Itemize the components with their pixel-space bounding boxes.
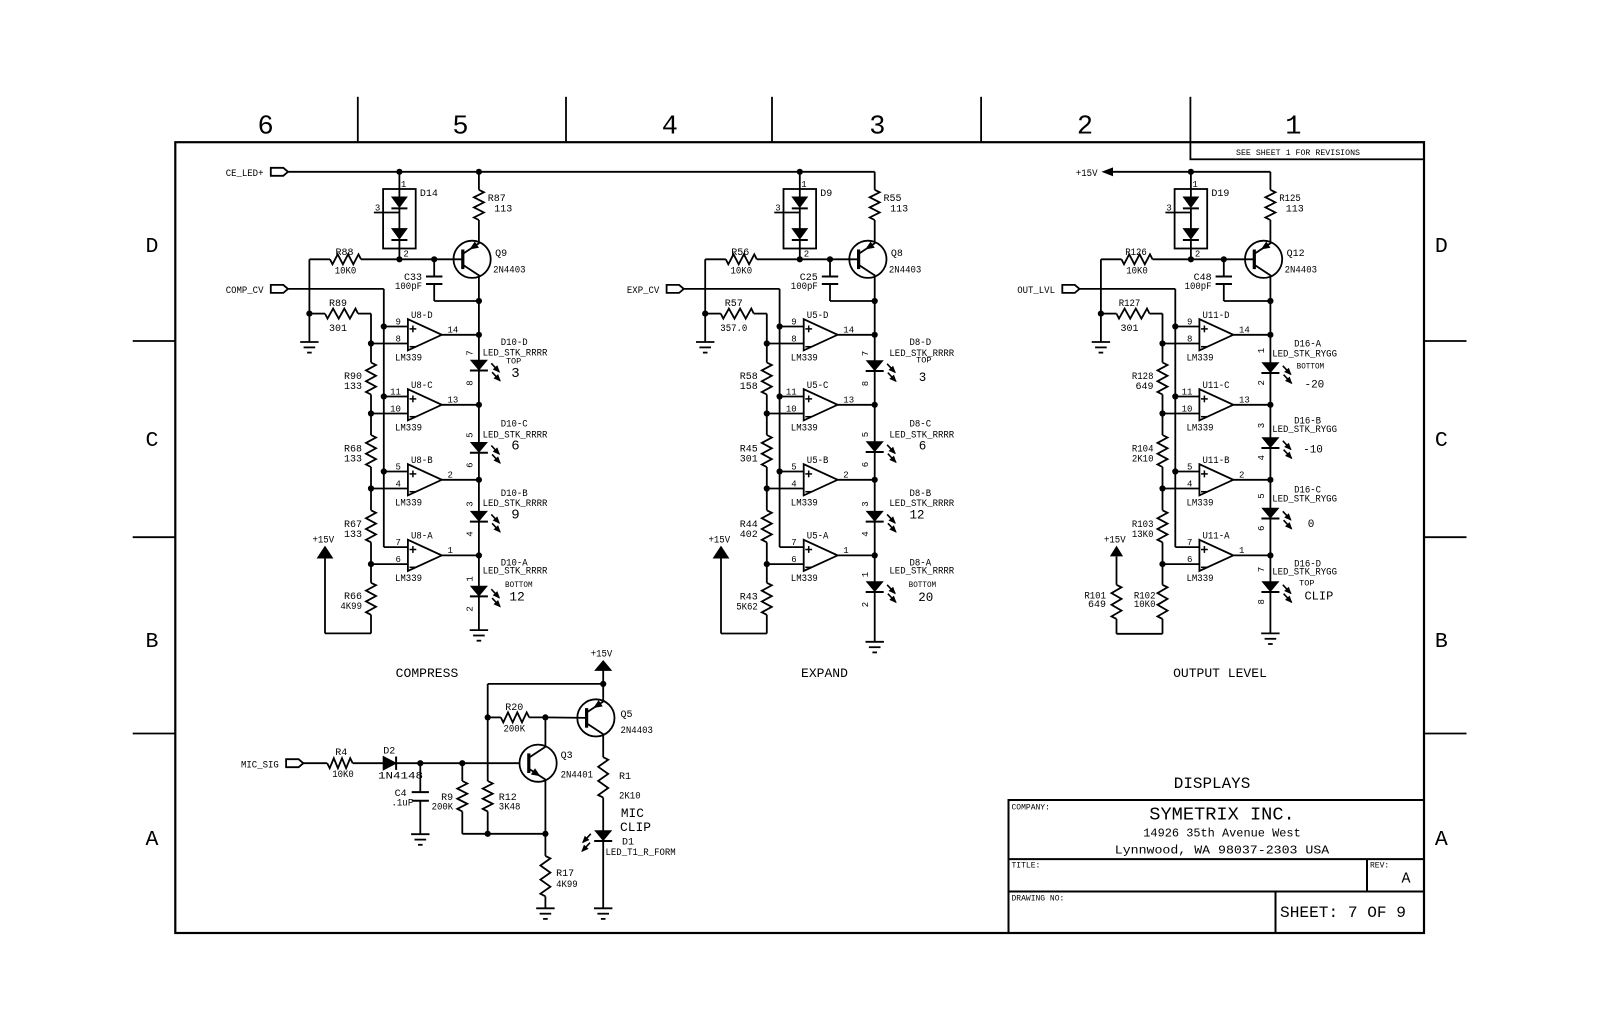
ground (bias) <box>1092 342 1110 353</box>
resistor R17 4K99 <box>540 834 577 909</box>
svg-text:11: 11 <box>1182 388 1193 398</box>
resistor R55 113 <box>870 172 908 243</box>
wire input to comparator + inputs <box>684 289 783 547</box>
svg-text:113: 113 <box>890 205 908 216</box>
node CE_LED+ input connector <box>226 168 288 180</box>
zone ticks top <box>358 97 1191 142</box>
svg-text:U8-C: U8-C <box>411 381 433 392</box>
zone ticks left <box>133 341 176 734</box>
svg-text:R89: R89 <box>329 299 347 310</box>
op-amp U5-B LM339 <box>767 456 878 510</box>
ground (D1) <box>594 908 612 919</box>
svg-text:LED_STK_RYGG: LED_STK_RYGG <box>1272 425 1337 436</box>
svg-text:BOTTOM: BOTTOM <box>505 580 533 590</box>
svg-text:5K62: 5K62 <box>736 602 758 613</box>
svg-text:200K: 200K <box>432 802 454 813</box>
svg-text:U8-D: U8-D <box>411 311 433 322</box>
resistor R90 133 <box>344 344 376 417</box>
svg-text:U11-D: U11-D <box>1203 311 1230 322</box>
svg-text:6: 6 <box>465 462 475 467</box>
wire +15V rail to R125 <box>1113 169 1271 175</box>
svg-text:649: 649 <box>1135 382 1153 393</box>
svg-text:2: 2 <box>1195 250 1200 260</box>
ground (LED stack) <box>470 630 488 641</box>
svg-text:LED_STK_RYGG: LED_STK_RYGG <box>1272 567 1337 578</box>
svg-text:D1: D1 <box>622 838 634 849</box>
svg-text:4: 4 <box>791 480 796 490</box>
node company block text <box>1012 804 1331 858</box>
svg-text:BOTTOM: BOTTOM <box>1297 361 1325 371</box>
svg-text:LM339: LM339 <box>791 423 818 434</box>
svg-text:4: 4 <box>1257 455 1267 460</box>
svg-text:14: 14 <box>448 325 459 335</box>
resistor R44 402 <box>740 489 772 568</box>
ground (bias) <box>696 342 714 353</box>
resistor R1 2K10 <box>598 734 640 802</box>
node section label COMPRESS <box>396 666 459 681</box>
op-amp U8-D LM339 <box>371 311 482 365</box>
LED D8-A <box>861 559 954 608</box>
svg-text:133: 133 <box>344 455 362 466</box>
svg-text:R126: R126 <box>1125 248 1147 259</box>
svg-text:LM339: LM339 <box>395 353 422 364</box>
resistor R43 5K62 <box>736 564 772 633</box>
svg-text:5: 5 <box>791 463 796 473</box>
svg-text:TOP: TOP <box>506 357 521 367</box>
svg-text:2N4403: 2N4403 <box>493 266 525 277</box>
op-amp U8-B LM339 <box>371 456 482 510</box>
svg-text:R17: R17 <box>556 869 574 880</box>
wire mic bottom row <box>462 831 548 837</box>
wire LED stack rail <box>874 335 876 642</box>
svg-text:2: 2 <box>861 602 871 607</box>
op-amp U11-A LM339 <box>1163 531 1274 585</box>
svg-text:C: C <box>146 429 159 453</box>
resistor R4 10K0 <box>327 748 354 781</box>
svg-text:10K0: 10K0 <box>332 770 354 781</box>
resistor R66 4K99 <box>340 564 376 633</box>
svg-text:+15V: +15V <box>591 649 613 660</box>
svg-text:LM339: LM339 <box>1187 574 1214 585</box>
svg-text:7: 7 <box>861 351 871 356</box>
svg-text:10: 10 <box>390 405 401 415</box>
svg-text:13: 13 <box>448 395 459 405</box>
svg-text:+15V: +15V <box>709 536 731 547</box>
svg-text:U8-A: U8-A <box>411 531 433 542</box>
svg-text:113: 113 <box>1286 205 1304 216</box>
svg-text:R125: R125 <box>1279 194 1301 205</box>
ground (LED stack) <box>866 642 884 653</box>
svg-text:100pF: 100pF <box>1185 282 1212 293</box>
svg-text:DRAWING NO:: DRAWING NO: <box>1012 895 1065 904</box>
svg-text:LM339: LM339 <box>1187 498 1214 509</box>
svg-text:12: 12 <box>509 590 525 605</box>
svg-text:D10-D: D10-D <box>501 338 528 349</box>
wire bias node <box>702 259 708 342</box>
wire CE_LED+ rail <box>288 169 875 175</box>
resistor R102 10K0 <box>1134 564 1168 634</box>
capacitor C25 100pF <box>791 259 875 301</box>
LED D10-C <box>465 420 547 468</box>
resistor R68 133 <box>344 414 376 492</box>
svg-text:LED_STK_RYGG: LED_STK_RYGG <box>1272 495 1337 506</box>
svg-text:EXPAND: EXPAND <box>801 666 848 681</box>
svg-text:3: 3 <box>861 501 871 506</box>
svg-text:Q8: Q8 <box>891 249 903 260</box>
svg-text:Q5: Q5 <box>621 710 633 721</box>
svg-text:9: 9 <box>511 508 519 524</box>
svg-text:1: 1 <box>801 180 806 190</box>
svg-text:6: 6 <box>1257 526 1267 531</box>
svg-text:1: 1 <box>465 576 475 581</box>
resistor R104 2K10 <box>1132 414 1168 492</box>
op-amp U5-C LM339 <box>767 381 878 435</box>
svg-text:A: A <box>146 828 159 852</box>
svg-text:14926 35th Avenue West: 14926 35th Avenue West <box>1143 827 1301 841</box>
resistor R101 649 <box>1084 557 1162 634</box>
ground (bias) <box>300 342 318 353</box>
svg-text:7: 7 <box>791 538 796 548</box>
svg-text:D9: D9 <box>820 189 832 200</box>
diode D14 (dual) <box>374 172 438 260</box>
wire base node row <box>1101 256 1254 262</box>
resistor R87 113 <box>474 172 512 243</box>
svg-text:-20: -20 <box>1304 380 1324 392</box>
LED D10-D <box>465 338 547 386</box>
svg-text:10K0: 10K0 <box>731 267 753 278</box>
svg-text:R88: R88 <box>335 248 353 259</box>
resistor R103 13K0 <box>1132 489 1168 568</box>
op-amp U8-C LM339 <box>371 381 482 435</box>
svg-text:10K0: 10K0 <box>1134 600 1156 611</box>
svg-text:R20: R20 <box>505 703 523 714</box>
svg-text:OUTPUT LEVEL: OUTPUT LEVEL <box>1173 666 1267 681</box>
node title/rev row <box>1012 862 1411 888</box>
svg-text:0: 0 <box>1308 519 1315 531</box>
zone letters right <box>1435 235 1448 852</box>
node EXP_CV input connector <box>627 285 684 297</box>
svg-text:4K99: 4K99 <box>340 602 362 613</box>
svg-text:5: 5 <box>861 432 871 437</box>
svg-text:133: 133 <box>344 382 362 393</box>
svg-text:1: 1 <box>1192 180 1197 190</box>
svg-text:LM339: LM339 <box>791 574 818 585</box>
svg-text:14: 14 <box>843 325 854 335</box>
wire input to comparator + inputs <box>1080 289 1179 547</box>
wire collector rail <box>1267 276 1273 335</box>
node OUT_LVL input connector <box>1017 285 1079 297</box>
node MIC_SIG input connector <box>241 759 303 771</box>
border frame <box>175 142 1424 933</box>
svg-text:3: 3 <box>919 371 927 385</box>
wire R20 feedback to +15V <box>488 681 607 718</box>
power +15V arrow (output chain) <box>1104 536 1126 556</box>
svg-text:2N4401: 2N4401 <box>561 771 593 782</box>
svg-text:1: 1 <box>401 180 406 190</box>
resistor R126 10K0 <box>1122 248 1153 278</box>
LED D16-D <box>1257 560 1337 605</box>
svg-text:7: 7 <box>1257 567 1267 572</box>
power +15V arrow (chain) <box>709 536 767 634</box>
svg-text:COMPRESS: COMPRESS <box>396 666 459 681</box>
svg-text:1: 1 <box>1285 113 1301 143</box>
svg-text:113: 113 <box>494 205 512 216</box>
svg-text:LM339: LM339 <box>791 498 818 509</box>
resistor R88 10K0 <box>330 248 361 278</box>
svg-text:R87: R87 <box>488 194 506 205</box>
diode D19 (dual) <box>1165 172 1229 260</box>
svg-text:Q9: Q9 <box>495 249 507 260</box>
svg-text:301: 301 <box>740 455 758 466</box>
svg-text:OUT_LVL: OUT_LVL <box>1017 286 1055 297</box>
node section label EXPAND <box>801 666 848 681</box>
svg-text:TOP: TOP <box>1299 579 1314 589</box>
svg-text:R1: R1 <box>619 772 631 783</box>
svg-text:D19: D19 <box>1211 189 1229 200</box>
svg-text:C: C <box>1435 429 1448 453</box>
svg-text:3: 3 <box>375 204 380 214</box>
wire bias node <box>306 259 312 342</box>
title block <box>1009 800 1425 933</box>
LED D1 LED_T1_R_FORM <box>582 798 676 909</box>
svg-text:2: 2 <box>804 250 809 260</box>
svg-text:-10: -10 <box>1303 444 1323 456</box>
svg-text:TOP: TOP <box>916 355 931 365</box>
svg-text:10K0: 10K0 <box>335 267 357 278</box>
svg-text:D: D <box>1435 235 1448 259</box>
svg-text:U11-B: U11-B <box>1203 456 1230 467</box>
svg-text:A: A <box>1401 871 1410 888</box>
transistor Q3 2N4401 <box>520 745 594 782</box>
svg-text:LED_STK_RRRR: LED_STK_RRRR <box>889 567 954 578</box>
svg-text:4K99: 4K99 <box>556 880 578 891</box>
svg-text:3: 3 <box>465 501 475 506</box>
svg-text:200K: 200K <box>504 725 526 736</box>
svg-text:3: 3 <box>869 113 885 143</box>
op-amp U8-A LM339 <box>371 531 482 585</box>
svg-text:3: 3 <box>775 204 780 214</box>
svg-text:2: 2 <box>843 470 848 480</box>
resistor R58 158 <box>740 344 772 417</box>
resistor R89 301 <box>309 299 371 344</box>
wire bias node <box>1098 259 1104 342</box>
wire input to comparator + inputs <box>288 289 387 547</box>
power +15V arrow (output level) <box>1076 168 1113 180</box>
svg-text:U5-C: U5-C <box>807 381 829 392</box>
ground (R17) <box>536 908 554 919</box>
svg-text:R56: R56 <box>731 248 749 259</box>
svg-text:9: 9 <box>1187 318 1192 328</box>
svg-text:R55: R55 <box>884 194 902 205</box>
svg-text:R57: R57 <box>725 299 743 310</box>
svg-text:D: D <box>146 235 159 259</box>
power +15V arrow (mic) <box>591 649 613 701</box>
svg-text:MIC_SIG: MIC_SIG <box>241 760 279 771</box>
svg-text:SEE SHEET 1 FOR REVISIONS: SEE SHEET 1 FOR REVISIONS <box>1236 148 1360 158</box>
svg-text:8: 8 <box>395 335 400 345</box>
op-amp U11-C LM339 <box>1163 381 1274 435</box>
svg-text:6: 6 <box>1187 555 1192 565</box>
node drawing no / sheet row <box>1012 895 1407 923</box>
svg-text:U5-B: U5-B <box>807 456 829 467</box>
svg-text:357.0: 357.0 <box>720 324 747 335</box>
diode D9 (dual) <box>774 172 832 260</box>
svg-text:402: 402 <box>740 530 758 541</box>
svg-text:6: 6 <box>861 462 871 467</box>
LED D16-A <box>1257 340 1337 392</box>
svg-text:3: 3 <box>511 366 519 382</box>
svg-text:8: 8 <box>1187 335 1192 345</box>
svg-text:1: 1 <box>861 572 871 577</box>
svg-text:100pF: 100pF <box>791 282 818 293</box>
svg-text:13: 13 <box>843 395 854 405</box>
svg-text:EXP_CV: EXP_CV <box>627 286 659 297</box>
svg-text:14: 14 <box>1239 325 1250 335</box>
wire mic input row <box>303 760 519 766</box>
svg-text:R127: R127 <box>1119 299 1141 310</box>
resistor R128 649 <box>1132 344 1168 417</box>
zone letters left <box>146 235 159 852</box>
svg-text:2N4403: 2N4403 <box>621 726 653 737</box>
svg-text:133: 133 <box>344 530 362 541</box>
svg-text:MIC: MIC <box>621 806 644 821</box>
svg-text:1: 1 <box>448 546 453 556</box>
ground (LED stack) <box>1261 633 1279 644</box>
svg-text:4: 4 <box>465 531 475 536</box>
transistor Q8 2N4403 <box>849 241 921 278</box>
svg-text:4: 4 <box>1187 480 1192 490</box>
wire base node row <box>705 256 858 262</box>
svg-text:7: 7 <box>395 538 400 548</box>
op-amp U5-A LM339 <box>767 531 878 585</box>
svg-text:A: A <box>1435 828 1448 852</box>
svg-text:D10-C: D10-C <box>501 420 528 431</box>
node section label OUTPUT LEVEL <box>1173 666 1267 681</box>
resistor R9 200K <box>432 763 468 834</box>
svg-text:301: 301 <box>329 324 347 335</box>
svg-text:7: 7 <box>465 350 475 355</box>
svg-text:LM339: LM339 <box>1187 423 1214 434</box>
wire collector rail <box>476 276 482 335</box>
LED D8-D <box>861 338 954 386</box>
svg-text:6: 6 <box>791 555 796 565</box>
svg-text:U11-C: U11-C <box>1203 381 1230 392</box>
svg-text:SYMETRIX INC.: SYMETRIX INC. <box>1149 805 1295 826</box>
svg-text:Q3: Q3 <box>561 751 573 762</box>
svg-text:8: 8 <box>861 381 871 386</box>
svg-text:2K10: 2K10 <box>619 792 641 803</box>
svg-text:LM339: LM339 <box>395 423 422 434</box>
svg-text:10: 10 <box>786 405 797 415</box>
svg-text:SHEET: 7 OF 9: SHEET: 7 OF 9 <box>1280 904 1406 922</box>
svg-text:2: 2 <box>465 606 475 611</box>
svg-text:CE_LED+: CE_LED+ <box>226 169 264 180</box>
svg-text:2K10: 2K10 <box>1132 455 1154 466</box>
revisions box <box>1190 142 1424 159</box>
capacitor C4 .1uF <box>392 763 429 834</box>
svg-text:158: 158 <box>740 382 758 393</box>
resistor R67 133 <box>344 489 376 568</box>
svg-text:REV:: REV: <box>1370 862 1389 871</box>
svg-text:5: 5 <box>452 113 468 143</box>
op-amp U11-D LM339 <box>1163 311 1274 365</box>
svg-text:1: 1 <box>1257 348 1267 353</box>
svg-text:D14: D14 <box>420 189 438 200</box>
svg-text:100pF: 100pF <box>395 282 422 293</box>
svg-text:D2: D2 <box>383 746 395 757</box>
svg-text:1: 1 <box>1239 546 1244 556</box>
svg-text:10: 10 <box>1182 405 1193 415</box>
LED D8-B <box>861 489 954 537</box>
svg-text:13K0: 13K0 <box>1132 530 1154 541</box>
LED D10-B <box>465 489 547 537</box>
svg-text:9: 9 <box>395 318 400 328</box>
svg-text:2: 2 <box>1077 113 1093 143</box>
svg-text:301: 301 <box>1120 324 1138 335</box>
svg-text:3K48: 3K48 <box>499 802 521 813</box>
diode D2 1N4148 <box>378 746 423 782</box>
LED D16-B <box>1257 417 1337 461</box>
svg-text:DISPLAYS: DISPLAYS <box>1174 775 1251 793</box>
wire collector rail <box>872 276 878 335</box>
svg-text:8: 8 <box>1257 599 1267 604</box>
svg-text:COMP_CV: COMP_CV <box>226 286 264 297</box>
zone numbers top <box>257 113 1301 143</box>
transistor Q9 2N4403 <box>454 241 526 278</box>
resistor R125 113 <box>1265 172 1303 243</box>
svg-text:4: 4 <box>861 531 871 536</box>
svg-text:LED_STK_RRRR: LED_STK_RRRR <box>483 567 548 578</box>
svg-text:U8-B: U8-B <box>411 456 433 467</box>
transistor Q5 2N4403 <box>577 699 653 737</box>
LED D16-C <box>1257 485 1337 531</box>
svg-text:U5-D: U5-D <box>807 311 829 322</box>
wire LED stack rail <box>478 335 480 630</box>
svg-text:6: 6 <box>257 113 273 143</box>
wire Q5 base <box>545 716 586 719</box>
transistor Q12 2N4403 <box>1245 241 1317 278</box>
svg-text:COMPANY:: COMPANY: <box>1012 804 1050 813</box>
svg-text:LM339: LM339 <box>395 498 422 509</box>
svg-text:CLIP: CLIP <box>620 820 651 835</box>
resistor R45 301 <box>740 414 772 492</box>
svg-text:8: 8 <box>791 335 796 345</box>
svg-text:LM339: LM339 <box>791 353 818 364</box>
svg-text:649: 649 <box>1088 600 1106 611</box>
wire LED stack rail <box>1269 335 1271 634</box>
svg-text:11: 11 <box>390 388 401 398</box>
svg-text:LM339: LM339 <box>395 574 422 585</box>
LED D8-C <box>861 420 954 468</box>
node MIC CLIP label <box>620 806 651 835</box>
svg-text:LM339: LM339 <box>1187 353 1214 364</box>
svg-text:Q12: Q12 <box>1287 249 1305 260</box>
svg-text:LED_STK_RYGG: LED_STK_RYGG <box>1272 349 1337 360</box>
capacitor C33 100pF <box>395 259 479 301</box>
wire base node row <box>309 256 462 262</box>
svg-text:4: 4 <box>395 480 400 490</box>
svg-text:U11-A: U11-A <box>1203 531 1230 542</box>
svg-text:+15V: +15V <box>313 536 335 547</box>
svg-text:1N4148: 1N4148 <box>378 772 423 783</box>
svg-text:6: 6 <box>919 440 927 454</box>
svg-text:+15V: +15V <box>1076 169 1098 180</box>
LED D10-A <box>465 559 547 612</box>
svg-text:8: 8 <box>465 380 475 385</box>
svg-text:6: 6 <box>511 439 519 455</box>
resistor R12 3K48 <box>483 717 521 833</box>
svg-text:5: 5 <box>395 463 400 473</box>
